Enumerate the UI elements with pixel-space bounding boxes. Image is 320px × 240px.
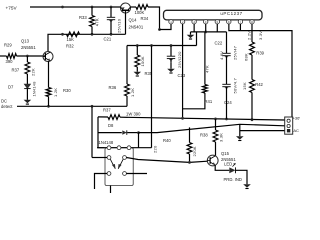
wire R40 top (189, 127, 191, 142)
wire AC to connector (240, 130, 285, 132)
wire pin 5 lead (216, 24, 218, 32)
wire +75V rail (30, 6, 121, 8)
wire R40 to base wire (189, 154, 191, 162)
node junction dot relay feed (91, 105, 94, 108)
resistor R32 (67, 32, 80, 37)
wire D8 cathode (127, 132, 138, 134)
svg-text:22K: 22K (30, 68, 35, 76)
wire relay NC exit left (95, 174, 108, 190)
node junction dot D8 node (137, 131, 140, 134)
resistor R38 (213, 130, 218, 142)
svg-text:1N4148: 1N4148 (31, 81, 36, 96)
svg-text:2: 2 (182, 20, 184, 24)
node junction dot pin4 lead (204, 31, 207, 34)
wire R37 to D7 (26, 74, 28, 84)
wire R42 to rail (251, 93, 253, 120)
svg-text:R37: R37 (12, 68, 20, 73)
svg-text:D7: D7 (8, 85, 14, 90)
svg-text:1.2K: 1.2K (53, 88, 58, 97)
svg-text:R42: R42 (255, 82, 263, 87)
wire pin5 link to C22 (226, 32, 228, 53)
svg-text:R30: R30 (63, 88, 71, 93)
svg-text:R40: R40 (163, 138, 171, 143)
svg-text:5: 5 (216, 20, 218, 24)
IC pins 1-8 (169, 20, 173, 24)
wire pin 8 lead (251, 24, 253, 42)
node junction dot C23 tap (170, 44, 173, 47)
wire R41 to jog (183, 93, 205, 109)
wire Q13 collector to R32 rail (48, 34, 126, 52)
ground below C23 (167, 69, 175, 72)
relay box (105, 148, 133, 186)
svg-text:8: 8 (251, 20, 253, 24)
node junction dot C21 bottom (110, 33, 113, 36)
svg-text:3.3K: 3.3K (218, 133, 223, 142)
svg-text:100K: 100K (140, 56, 145, 66)
wire pin3 node to delay net (196, 32, 198, 46)
resistor R37 (25, 62, 30, 74)
wire Q14 base down (125, 13, 127, 34)
resistor R36 (125, 84, 130, 96)
wire C22 to C24 (226, 59, 228, 84)
transistor Q13 (43, 52, 53, 62)
wire DC rail to relay contact (91, 106, 93, 157)
svg-text:220: 220 (152, 145, 157, 153)
wire delay to R36 (126, 46, 128, 85)
svg-text:uPC1237: uPC1237 (220, 11, 242, 16)
wire to IC pin 1 (160, 24, 172, 30)
node junction dot Q13 emitter rail (47, 105, 50, 108)
svg-text:220K: 220K (192, 146, 197, 156)
wire R34 to pin1 corner (148, 7, 160, 30)
svg-text:C23: C23 (178, 73, 186, 78)
wire pin 4 lead (205, 24, 207, 32)
relay coil terminals (97, 147, 152, 149)
svg-text:3.3V: 3.3V (258, 31, 263, 40)
node junction dot pin2 rail (181, 117, 184, 120)
svg-text:R34: R34 (141, 16, 149, 21)
wire LED to ground (236, 170, 248, 184)
resistor R34 (136, 5, 148, 10)
wire Q15 emitter (215, 165, 229, 170)
svg-text:68K: 68K (244, 53, 249, 61)
wire Q13 emitter to R30 (48, 61, 50, 87)
ground at pin 3 (190, 32, 192, 35)
node junction dot R42 bottom rail (251, 118, 254, 121)
wire C24 to rail (226, 90, 228, 119)
wire pin 6 to +36V feed (229, 24, 292, 117)
svg-text:100K: 100K (135, 10, 145, 15)
wire relay contact left mid (92, 157, 107, 159)
svg-text:Q13: Q13 (21, 39, 30, 44)
wire D8 node to coil (138, 133, 140, 148)
wire pin3-pin5 link (191, 31, 227, 33)
svg-text:2.2V: 2.2V (246, 31, 251, 40)
capacitor C21 (110, 7, 112, 17)
node junction dot pin1 wire (158, 28, 161, 31)
wire R30 to DC rail (48, 97, 50, 107)
ground D7 on rail (24, 100, 32, 103)
capacitor C23 (170, 46, 172, 57)
svg-text:7: 7 (240, 20, 242, 24)
wire DC detect rail (17, 105, 127, 107)
ground below R35 (134, 72, 142, 75)
svg-text:R29: R29 (4, 43, 12, 48)
svg-text:25V/220: 25V/220 (177, 51, 182, 68)
resistor R39 (250, 42, 255, 55)
wire Q14 collector to R34 (131, 6, 137, 8)
svg-text:2N5551: 2N5551 (21, 45, 36, 50)
transistor Q14 (121, 3, 131, 13)
svg-text:4.6V: 4.6V (219, 51, 224, 60)
wire rail to R38 (215, 119, 217, 130)
wire relay NO stub (126, 173, 147, 175)
svg-text:R41: R41 (205, 99, 213, 104)
node junction dot R33 top (91, 6, 94, 9)
svg-text:R36: R36 (109, 85, 117, 90)
resistor R42 (250, 80, 255, 93)
svg-text:15K: 15K (67, 37, 75, 42)
wire base node to R37 (26, 56, 28, 62)
svg-text:R37: R37 (103, 107, 111, 112)
wire R35 to ground (136, 67, 138, 72)
wire R39 to R42 (251, 55, 253, 80)
svg-text:DC: DC (1, 99, 7, 104)
svg-text:R32: R32 (66, 44, 74, 49)
wire D8 anode (98, 132, 122, 134)
svg-text:6: 6 (228, 20, 230, 24)
node junction dot C21 top (110, 6, 113, 9)
node junction dot R40 base joint (188, 161, 191, 164)
resistor R30 (46, 88, 51, 97)
relay contacts (107, 156, 111, 160)
svg-text:Q15: Q15 (221, 151, 230, 156)
svg-text:50V/4.7: 50V/4.7 (232, 77, 237, 93)
diode D8 (122, 130, 127, 134)
wire D8 node to connector (139, 124, 285, 132)
wire pin 2 lead down to relay rail (182, 24, 184, 118)
ground LED return (243, 184, 251, 187)
ground AC net (236, 136, 244, 139)
svg-text:1: 1 (170, 20, 172, 24)
wire delay to R35 (136, 46, 138, 56)
IC U1 uPC1237 body (164, 10, 263, 20)
wire R36 to DC rail (126, 96, 128, 106)
svg-text:25V/47: 25V/47 (232, 45, 237, 60)
svg-text:C22: C22 (215, 41, 223, 46)
wire pin 3 lead (193, 24, 195, 32)
svg-text:R38: R38 (200, 132, 208, 137)
svg-text:1N4148: 1N4148 (99, 140, 114, 145)
svg-text:LED: LED (224, 162, 232, 167)
svg-text:C24: C24 (224, 100, 232, 105)
svg-text:25V/10: 25V/10 (116, 18, 121, 33)
svg-text:1.2K: 1.2K (130, 88, 135, 97)
wire pin 7 lead (239, 24, 241, 30)
wire delay node (127, 45, 197, 47)
node junction dot base rail left (61, 33, 64, 36)
node junction dot R38 top (214, 118, 217, 121)
svg-text:AC: AC (293, 128, 299, 133)
svg-text:47K: 47K (95, 18, 100, 26)
svg-text:D8: D8 (108, 123, 114, 128)
connector J1 power (285, 117, 293, 134)
node junction dot R35 tap (136, 44, 139, 47)
capacitor C22 (226, 52, 228, 54)
capacitor C24 (226, 83, 228, 85)
wire D7 to ground (26, 89, 28, 100)
wire relay common to Q15 base (126, 158, 207, 163)
svg-text:R33: R33 (79, 15, 87, 20)
wire AC ground stub (239, 124, 241, 136)
wire relay bottom lead (110, 186, 112, 194)
LED indicator (229, 167, 235, 173)
svg-text:2N5401: 2N5401 (129, 25, 144, 30)
resistor R33 (91, 7, 93, 16)
node junction dot R33 bottom (91, 33, 94, 36)
diode D7 (24, 84, 30, 89)
wire pin4 to R41 (204, 32, 206, 85)
wire relay supply rail (98, 116, 108, 118)
svg-text:390: 390 (6, 59, 14, 64)
node junction dot relay sense tap (150, 44, 153, 47)
wire sense tap to relay coil (151, 46, 153, 148)
svg-text:detect: detect (1, 104, 13, 109)
svg-text:15K: 15K (242, 82, 247, 90)
svg-text:4: 4 (205, 20, 207, 24)
svg-text:1W 390: 1W 390 (126, 111, 141, 116)
svg-text:3: 3 (193, 20, 195, 24)
svg-text:+75V: +75V (6, 6, 18, 11)
svg-text:PRD. IND: PRD. IND (224, 177, 242, 182)
transistor Q15 (207, 155, 218, 166)
svg-text:Q14: Q14 (129, 17, 138, 22)
wire relay rail to D8 (98, 117, 104, 148)
resistor R29 (0, 55, 7, 57)
node junction dot +75V rail (61, 6, 64, 9)
resistor R35 (135, 55, 140, 67)
node junction dot Q13 base (26, 55, 29, 58)
svg-text:R39: R39 (256, 51, 264, 56)
node junction dot C24 bottom rail (225, 118, 228, 121)
svg-text:+36V: +36V (293, 116, 300, 121)
resistor R40 (187, 143, 192, 155)
svg-text:47K: 47K (204, 65, 209, 73)
wire R38 to Q15 collector (215, 142, 217, 156)
svg-text:C21: C21 (104, 36, 112, 41)
wire C23 to ground (170, 62, 172, 68)
resistor R41 (203, 85, 208, 94)
